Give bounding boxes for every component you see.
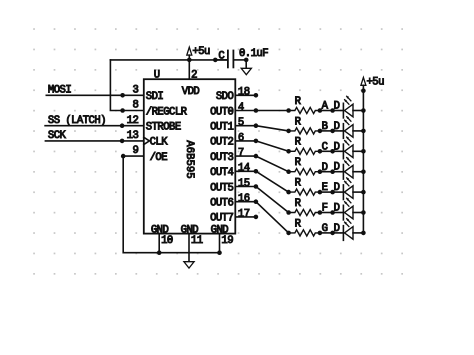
resistor R (F segment): [289, 198, 320, 216]
wire LED DE anode to +5v rail: [353, 191, 363, 193]
wire node B: [320, 130, 333, 132]
junction node after RA: [318, 108, 323, 113]
junction node pin 8: [120, 108, 125, 113]
svg-text:12: 12: [127, 115, 139, 127]
wire OUT4 pin to resistor RE row: [235, 169, 291, 194]
junction node on +5v rail row F: [361, 210, 366, 215]
svg-text:9: 9: [132, 145, 138, 157]
svg-text:OUT1: OUT1: [210, 122, 233, 134]
ground symbol below IC: [184, 262, 194, 268]
svg-text:D: D: [334, 162, 340, 174]
wire GND pin 19 stub: [219, 234, 221, 253]
junction node before LED DA: [330, 108, 335, 113]
junction node after RF: [318, 210, 323, 215]
wire GND pin 10 stub: [158, 234, 160, 253]
junction node top of LED rail: [361, 88, 366, 93]
wire OUT6 pin to resistor RG row: [235, 199, 291, 235]
wire GND pin 11 stub: [188, 234, 190, 253]
node SS (LATCH): [45, 115, 144, 128]
junction node at capacitor right lead: [244, 58, 249, 63]
wire to LED DD cathode: [333, 171, 344, 173]
wire OUT3 pin to resistor RD row: [235, 154, 291, 174]
junction node after RE: [318, 190, 323, 195]
svg-text:14: 14: [238, 163, 250, 175]
svg-text:18: 18: [238, 87, 250, 99]
wire capacitor to ground: [245, 60, 247, 68]
svg-text:2: 2: [191, 70, 197, 82]
ground symbol at capacitor: [241, 68, 251, 74]
wire +5v branch down to /REGCLR pin 8: [110, 60, 122, 111]
junction node after RD: [318, 169, 323, 174]
node MOSI: [46, 85, 144, 98]
svg-text:3: 3: [132, 84, 138, 96]
svg-text:/REGCLR: /REGCLR: [146, 106, 188, 118]
resistor R (A segment): [289, 96, 320, 114]
wire node A: [320, 110, 333, 112]
svg-text:13: 13: [127, 130, 139, 142]
wire to LED DF cathode: [333, 212, 344, 214]
svg-text:CLK: CLK: [150, 137, 169, 149]
svg-text:6: 6: [238, 132, 244, 144]
power +5v supply for LEDs: [361, 76, 384, 90]
junction node at VDD stem: [187, 58, 192, 63]
junction node before LED DE: [330, 190, 335, 195]
wire /OE down to ground rail: [123, 156, 219, 253]
svg-text:0.1uF: 0.1uF: [239, 48, 268, 60]
wire node E: [320, 191, 333, 193]
wire LED DG anode to +5v rail: [353, 232, 363, 234]
junction node after RB: [318, 129, 323, 134]
LED D (B segment): [334, 116, 353, 138]
svg-text:OUT4: OUT4: [210, 167, 233, 179]
junction node on +5v rail row C: [361, 149, 366, 154]
wire OUT1 pin to resistor RB row: [235, 123, 291, 133]
resistor R (G segment): [289, 218, 320, 236]
junction node after RC: [318, 149, 323, 154]
svg-text:OUT3: OUT3: [210, 152, 233, 164]
svg-text:E: E: [322, 182, 328, 194]
wire +5v horizontal rail: [110, 59, 227, 61]
svg-text:SDI: SDI: [146, 91, 164, 103]
wire to LED DB cathode: [333, 130, 344, 132]
junction node pin 9: [121, 154, 126, 159]
wire to LED DA cathode: [333, 110, 344, 112]
svg-text:19: 19: [221, 235, 233, 247]
resistor R (E segment): [289, 178, 320, 196]
svg-text:VDD: VDD: [182, 86, 200, 98]
svg-text:17: 17: [238, 208, 250, 220]
LED D (G segment): [334, 218, 353, 240]
wire node C: [320, 150, 333, 152]
clock input wedge on CLK: [144, 137, 150, 144]
svg-text:D: D: [322, 162, 328, 174]
svg-text:D: D: [334, 141, 340, 153]
LED D (C segment): [334, 137, 353, 159]
junction node SDO: [254, 93, 259, 98]
svg-text:OUT2: OUT2: [210, 137, 233, 149]
svg-text:STROBE: STROBE: [146, 122, 181, 134]
wire pin 8 stub: [123, 110, 144, 112]
junction node before LED DD: [330, 169, 335, 174]
junction node on +5v rail row A: [361, 108, 366, 113]
svg-text:D: D: [334, 203, 340, 215]
junction node on +5v rail row D: [361, 169, 366, 174]
wire OUT7 stub pin 17: [235, 216, 256, 218]
wire /OE pin 9 stub: [123, 155, 144, 157]
svg-text:D: D: [334, 182, 340, 194]
resistor R (D segment): [289, 157, 320, 175]
svg-text:15: 15: [238, 178, 250, 190]
svg-text:OUT0: OUT0: [210, 106, 233, 118]
svg-text:11: 11: [191, 235, 203, 247]
svg-text:+5u: +5u: [367, 76, 385, 88]
svg-text:F: F: [322, 203, 328, 215]
power +5v supply at VDD: [187, 46, 210, 60]
wire ground stem: [188, 253, 190, 262]
junction node before LED DC: [330, 149, 335, 154]
op-amp? no: IC U A6B595 body: [144, 79, 236, 233]
junction node pin 10 on ground rail: [157, 250, 162, 255]
svg-text:SDO: SDO: [216, 91, 234, 103]
wire to LED DE cathode: [333, 191, 344, 193]
wire OUT2 pin to resistor RC row: [235, 139, 291, 154]
svg-text:C: C: [322, 141, 328, 153]
wire to LED DG cathode: [333, 232, 344, 234]
wire node G: [320, 232, 333, 234]
wire LED DD anode to +5v rail: [353, 171, 363, 173]
resistor R (B segment): [289, 116, 320, 134]
svg-text:OUT5: OUT5: [210, 182, 233, 194]
resistor R (C segment): [289, 137, 320, 155]
svg-text:A6B595: A6B595: [183, 140, 195, 178]
svg-text:D: D: [334, 101, 340, 113]
svg-text:D: D: [334, 121, 340, 133]
svg-text:D: D: [334, 223, 340, 235]
junction node at capacitor tap: [213, 58, 218, 63]
junction node on +5v rail row B: [361, 129, 366, 134]
wire OUT5 pin to resistor RF row: [235, 184, 291, 215]
wire VDD pin 2 stem: [188, 60, 190, 79]
node SCK: [45, 130, 143, 143]
wire LED DA anode to +5v rail: [353, 110, 363, 112]
junction node on +5v rail row E: [361, 190, 366, 195]
wire node D: [320, 171, 333, 173]
wire node F: [320, 212, 333, 214]
LED D (F segment): [334, 198, 353, 220]
LED D (A segment): [334, 96, 353, 118]
svg-text:10: 10: [161, 235, 173, 247]
svg-text:8: 8: [132, 100, 138, 112]
svg-text:C: C: [218, 50, 224, 62]
svg-text:U: U: [154, 69, 160, 81]
svg-text:16: 16: [238, 193, 250, 205]
junction node before LED DB: [330, 129, 335, 134]
junction node before LED DG: [330, 231, 335, 236]
svg-text:OUT7: OUT7: [210, 213, 233, 225]
svg-text:+5u: +5u: [192, 46, 210, 58]
svg-text:/OE: /OE: [150, 152, 168, 164]
wire SDO stub pin 18: [235, 94, 256, 96]
junction node before LED DF: [330, 210, 335, 215]
junction node OUT7: [254, 215, 259, 220]
svg-text:OUT6: OUT6: [210, 198, 233, 210]
svg-text:B: B: [322, 121, 328, 133]
svg-text:4: 4: [238, 102, 244, 114]
junction node after RG: [318, 231, 323, 236]
capacitor C 0.1uF: [215, 48, 268, 68]
wire +5v LED anode rail: [362, 91, 364, 233]
svg-text:G: G: [322, 223, 328, 235]
wire LED DB anode to +5v rail: [353, 130, 363, 132]
svg-text:5: 5: [238, 117, 244, 129]
wire to LED DC cathode: [333, 150, 344, 152]
junction node on +5v rail row G: [361, 231, 366, 236]
LED D (D segment): [334, 157, 353, 179]
wire OUT0 pin to resistor RA row: [235, 108, 291, 113]
junction node pin 19 on ground rail: [217, 250, 222, 255]
wire LED DC anode to +5v rail: [353, 150, 363, 152]
svg-text:7: 7: [238, 148, 244, 160]
LED D (E segment): [334, 177, 353, 199]
wire LED DF anode to +5v rail: [353, 212, 363, 214]
